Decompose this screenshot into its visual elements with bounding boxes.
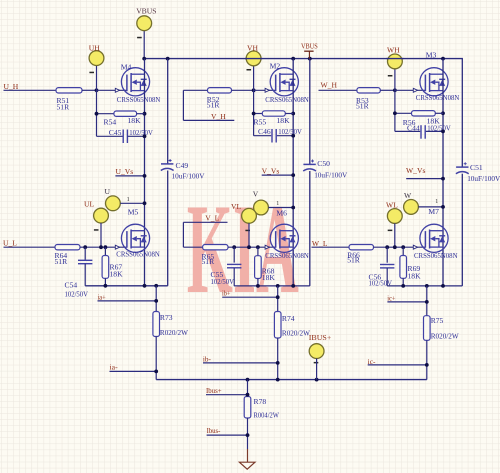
svg-text:W_Vs: W_Vs [406, 166, 425, 175]
wire Ibus+ stub [206, 394, 248, 396]
svg-text:ib+: ib+ [222, 290, 231, 298]
svg-text:1: 1 [435, 199, 438, 205]
testpoint U [106, 196, 121, 211]
node Ibus- junction [246, 433, 250, 437]
testpoint UH [89, 51, 104, 66]
wire V_H riser [182, 90, 184, 120]
wire ia+ stub [98, 300, 157, 302]
svg-text:R74: R74 [282, 314, 295, 323]
svg-text:R55: R55 [254, 117, 267, 126]
svg-text:WL: WL [386, 201, 398, 210]
wire C54 bottom lead [84, 264, 86, 286]
svg-text:M4: M4 [121, 62, 132, 71]
transistor M4 [121, 68, 149, 96]
svg-text:M6: M6 [276, 208, 287, 217]
capacitor C44 102/50V [420, 125, 422, 139]
gate arrow M7 [413, 245, 417, 249]
wire V_L stub [183, 221, 227, 223]
wire C56 top lead [386, 247, 388, 263]
testpoint WL [387, 209, 402, 224]
wire R69 top lead [402, 247, 404, 255]
node V testpoint junction [291, 206, 295, 210]
svg-text:18K: 18K [128, 116, 142, 125]
node ia- junction [154, 370, 158, 374]
svg-text:R73: R73 [160, 313, 173, 322]
wire V_L riser [182, 222, 184, 247]
resistor R53 51R [357, 88, 380, 93]
svg-text:C45: C45 [109, 128, 122, 137]
wire R67 top lead [104, 247, 106, 255]
testpoint W [404, 200, 419, 215]
svg-text:R020/2W: R020/2W [282, 328, 311, 337]
wire VH testpoint column [253, 66, 255, 136]
wire V testpoint to column [268, 207, 293, 209]
wire C51 column top [461, 59, 463, 167]
wire R53 to gate node [380, 89, 395, 91]
svg-text:VBUS: VBUS [301, 43, 318, 51]
node WH gate junction [393, 88, 397, 92]
svg-text:ib-: ib- [203, 355, 212, 363]
wire R73 bottom lead [155, 337, 157, 380]
wire W phase bottom rail [387, 285, 462, 287]
wire R74 top lead [277, 286, 279, 312]
gate arrow M2 [265, 88, 269, 92]
node U bottom rail junctions [104, 284, 108, 288]
svg-text:CRSS065N08N: CRSS065N08N [416, 93, 460, 102]
node R56 ends [393, 111, 397, 115]
transistor M3 [420, 68, 448, 96]
node ic- junction [425, 363, 429, 367]
resistor R51 51R [56, 88, 82, 93]
wire rail across WH [386, 58, 403, 60]
wire R68 top lead [257, 247, 259, 256]
svg-text:51R: 51R [356, 102, 370, 111]
wire VBUS label tick [308, 51, 310, 58]
wire ib+ stub [222, 296, 278, 298]
svg-text:51R: 51R [347, 255, 361, 264]
wire R56 left [395, 112, 412, 114]
svg-text:ia+: ia+ [98, 293, 106, 301]
wire IBUS+ column [316, 359, 318, 380]
svg-text:VBUS: VBUS [136, 7, 156, 16]
testpoint WH [388, 54, 403, 69]
svg-text:10uF/100V: 10uF/100V [467, 174, 500, 183]
svg-text:R020/2W: R020/2W [431, 332, 460, 341]
gate arrow M3 [413, 88, 417, 92]
svg-text:102/50V: 102/50V [278, 127, 302, 136]
svg-text:U: U [105, 187, 111, 196]
node U testpoint junction [143, 201, 147, 205]
node Ibus+ junction [246, 393, 250, 397]
wire W_L input [312, 246, 350, 248]
svg-text:U_H: U_H [4, 82, 19, 91]
node ib+ junction [276, 295, 280, 299]
wire M3 drain-source column [442, 59, 444, 286]
svg-text:M3: M3 [426, 51, 437, 60]
wire R73 top lead [155, 286, 157, 312]
svg-text:C49: C49 [176, 161, 189, 170]
node V bottom rail junctions [256, 284, 260, 288]
wire C44 right [426, 130, 443, 132]
capacitor C54 102/50V [78, 259, 92, 261]
svg-text:18K: 18K [262, 273, 276, 282]
wire C51 column bottom [461, 174, 463, 286]
node W_Vs junction [441, 177, 445, 181]
wire W_H input [319, 89, 357, 91]
svg-text:1: 1 [276, 201, 279, 207]
svg-text:18K: 18K [277, 116, 291, 125]
wire R78 bottom lead [247, 418, 249, 449]
svg-text:VL: VL [231, 202, 241, 211]
wire C55 bottom lead [233, 268, 235, 286]
capacitor C45 102/50V [122, 130, 124, 144]
resistor R67 18K [102, 256, 109, 279]
wire C49 column top [167, 59, 169, 164]
svg-text:IBUS+: IBUS+ [309, 333, 332, 342]
svg-text:51R: 51R [207, 101, 221, 110]
wire R55 right [285, 113, 293, 115]
node V_Vs junction [291, 173, 295, 177]
svg-text:M5: M5 [128, 208, 139, 217]
wire R68 bottom lead [257, 279, 259, 286]
wire R55 left [254, 113, 263, 115]
wire C44 left [395, 130, 420, 132]
svg-text:R020/2W: R020/2W [160, 328, 189, 337]
capacitor C55 102/50V [227, 263, 241, 265]
node M5 gate junctions [83, 245, 87, 249]
wire R65 to M6 gate [228, 246, 276, 248]
svg-text:C44: C44 [407, 123, 420, 132]
wire R51 to gate node [82, 89, 97, 91]
svg-text:R75: R75 [431, 316, 444, 325]
node R55 ends [252, 112, 256, 116]
wire R74 bottom lead [277, 338, 279, 380]
node ic+ junction [425, 300, 429, 304]
svg-text:CRSS065N08N: CRSS065N08N [117, 95, 161, 104]
ground [239, 462, 255, 469]
svg-text:CRSS065N08N: CRSS065N08N [265, 95, 309, 104]
svg-text:V_Vs: V_Vs [262, 166, 280, 175]
wire ib- stub [203, 362, 278, 364]
wire ic+ stub [387, 301, 426, 303]
node ib- junction [276, 361, 280, 365]
wire ia- stub [110, 370, 157, 372]
capacitor C46 102/50V [271, 129, 273, 143]
capacitor C51 10uF/100V [456, 166, 468, 168]
wire U_Vs stub [115, 175, 144, 177]
svg-text:C54: C54 [65, 281, 78, 290]
svg-text:CRSS065N08N: CRSS065N08N [265, 251, 309, 260]
wire V_Vs stub [262, 174, 294, 176]
svg-text:1: 1 [127, 197, 130, 203]
svg-text:ia-: ia- [110, 363, 119, 371]
wire VBUS top rail [144, 58, 463, 60]
svg-text:UH: UH [89, 44, 100, 53]
testpoint IBUS+ [309, 344, 324, 359]
svg-text:CRSS065N08N: CRSS065N08N [116, 249, 160, 258]
power port VBUS bar [304, 50, 313, 52]
svg-text:10uF/100V: 10uF/100V [172, 171, 205, 180]
wire R56 right [435, 112, 443, 114]
svg-text:V: V [253, 189, 259, 198]
svg-text:C50: C50 [317, 159, 330, 168]
wire R67 bottom lead [104, 278, 106, 286]
wire C45 left [97, 135, 124, 137]
node ia+ junction [154, 299, 158, 303]
gate arrow M5 [115, 245, 119, 249]
wire C49 column bottom [167, 171, 169, 286]
svg-text:18K: 18K [110, 269, 124, 278]
svg-text:W: W [404, 191, 412, 200]
svg-text:M2: M2 [270, 61, 281, 70]
svg-text:UL: UL [84, 200, 94, 209]
wire V_H to R52 [183, 89, 207, 91]
wire Ibus- stub [207, 434, 248, 436]
node UH gate junction [95, 88, 99, 92]
wire V_H stub [183, 119, 234, 121]
svg-text:10uF/100V: 10uF/100V [314, 171, 347, 180]
transistor M2 [270, 68, 298, 96]
wire R75 top lead [426, 286, 428, 316]
wire ground lead [247, 449, 249, 462]
svg-text:R78: R78 [254, 397, 267, 406]
wire WH testpoint column [394, 69, 396, 132]
node C44 right [441, 130, 445, 134]
gate arrow M6 [265, 245, 269, 249]
svg-text:102/50V: 102/50V [211, 277, 235, 286]
node C46 right [291, 134, 295, 138]
transistor M6 [270, 224, 298, 252]
wire U testpoint to column [120, 202, 144, 204]
wire UL column [100, 223, 102, 247]
resistor R52 51R [208, 88, 232, 93]
svg-text:V_L: V_L [205, 214, 219, 223]
svg-text:51R: 51R [202, 257, 216, 266]
svg-text:Ibus+: Ibus+ [206, 386, 222, 395]
svg-text:M7: M7 [428, 207, 439, 216]
svg-text:VH: VH [247, 44, 258, 53]
wire V_L to R65 [183, 246, 202, 248]
wire C55 top lead [233, 247, 235, 262]
svg-text:Ibus-: Ibus- [207, 426, 221, 435]
svg-text:C46: C46 [258, 127, 271, 136]
wire gate node to M2 gate [254, 89, 276, 91]
wire rail across VH [245, 58, 262, 60]
wire V phase bottom rail [234, 285, 310, 287]
testpoint V [254, 200, 269, 215]
wire U_L input [4, 246, 56, 248]
svg-text:102/50V: 102/50V [65, 290, 89, 299]
node C45 right [143, 134, 147, 138]
wire R64 to M5 gate [80, 246, 127, 248]
wire R78 top lead [247, 380, 249, 397]
wire C54 top lead [84, 247, 86, 260]
capacitor C56 102/50V [380, 264, 394, 266]
wire VL column [248, 223, 250, 247]
wire ic- stub [368, 364, 427, 366]
resistor R65 51R [203, 245, 228, 250]
wire gate node to M4 gate [97, 89, 127, 91]
wire C50 column bottom [309, 171, 311, 286]
wire R75 bottom lead [426, 340, 428, 379]
wire gate node to M3 gate [395, 89, 426, 91]
wire VBUS testpoint drop [143, 31, 145, 59]
node M7 gate junctions [385, 245, 389, 249]
svg-text:V_H: V_H [211, 112, 226, 121]
wire M4 drain-source column [144, 59, 146, 286]
svg-text:R54: R54 [104, 118, 117, 127]
testpoint VL [242, 208, 257, 223]
svg-text:51R: 51R [57, 103, 71, 112]
svg-text:U_Vs: U_Vs [116, 167, 134, 176]
node VH gate junction [252, 88, 256, 92]
node R54 ends [95, 112, 99, 116]
resistor R66 51R [349, 245, 374, 250]
wire bottom bus rail [156, 379, 427, 381]
node VBUS rail junctions [142, 57, 146, 61]
node U_Vs junction [143, 174, 147, 178]
svg-text:CRSS065N08N: CRSS065N08N [414, 251, 458, 260]
wire U_H input [4, 89, 57, 91]
wire W_Vs stub [406, 178, 443, 180]
wire M2 drain-source column [292, 59, 294, 286]
wire C46 right [277, 135, 293, 137]
svg-text:C51: C51 [470, 163, 483, 172]
wire R66 to M7 gate [374, 246, 426, 248]
capacitor C50 10uF/100V [303, 163, 315, 165]
svg-text:W_H: W_H [321, 81, 338, 90]
resistor R74 R020/2W [274, 312, 281, 339]
resistor R69 18K [400, 256, 407, 279]
wire R54 left [97, 113, 114, 115]
wire R54 right [137, 113, 145, 115]
node W testpoint junction [441, 205, 445, 209]
resistor R55 18K [262, 111, 285, 116]
testpoint UL [94, 208, 109, 223]
resistor R64 51R [55, 245, 80, 250]
node M6 gate junctions [232, 245, 236, 249]
svg-text:R004/2W: R004/2W [254, 410, 280, 419]
wire R52 to gate node [232, 89, 254, 91]
svg-text:U_L: U_L [3, 239, 17, 248]
resistor R73 R020/2W [153, 312, 160, 337]
wire W testpoint to column [418, 206, 443, 208]
wire WL column [394, 223, 396, 247]
wire C45 right [128, 135, 145, 137]
wire R69 bottom lead [402, 278, 404, 286]
resistor R78 R004/2W [244, 397, 251, 419]
resistor R68 18K [255, 256, 262, 279]
wire C56 bottom lead [386, 268, 388, 286]
testpoint VH [246, 51, 261, 66]
wire C50 column top [309, 59, 311, 165]
wire U phase bottom rail [85, 285, 168, 287]
resistor R56 18K [412, 111, 436, 116]
transistor M5 [121, 224, 149, 252]
svg-text:WH: WH [387, 46, 400, 55]
testpoint VBUS [137, 16, 152, 31]
node W bottom rail junctions [401, 284, 405, 288]
capacitor C49 10uF/100V [161, 163, 173, 165]
node bottom rail junctions [246, 378, 250, 382]
wire C46 left [254, 135, 272, 137]
resistor R54 18K [114, 111, 137, 116]
svg-text:51R: 51R [55, 257, 69, 266]
wire UH testpoint column [96, 66, 98, 137]
resistor R75 R020/2W [424, 316, 431, 341]
svg-text:18K: 18K [408, 271, 422, 280]
transistor M7 [420, 224, 448, 252]
gate arrow M4 [115, 88, 119, 92]
